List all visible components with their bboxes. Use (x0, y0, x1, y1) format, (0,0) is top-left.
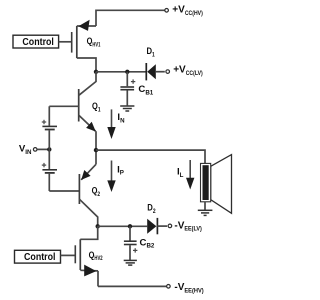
diode D2 (147, 218, 167, 234)
transistor Q2 (79, 150, 97, 226)
terminal +VCC(HV) (165, 9, 169, 13)
ground CB1 (120, 106, 134, 111)
diode D1 (146, 63, 165, 80)
terminal VIN (33, 148, 49, 152)
wire gate QHV2 (61, 254, 76, 256)
battery B1 (42, 106, 57, 149)
battery B2 (42, 149, 57, 191)
wire gate QHV1 (59, 41, 72, 43)
junction CB1 (125, 70, 129, 74)
arrow IP (107, 161, 115, 193)
ground speaker (198, 202, 213, 216)
wire node B to D2 (98, 225, 148, 227)
capacitor CB1 (120, 72, 135, 106)
transistor Q1 (49, 72, 96, 150)
control box bottom (15, 250, 61, 263)
transistor QHV2 (75, 226, 98, 286)
capacitor CB2 (124, 226, 137, 260)
arrow IL (186, 160, 194, 190)
control box top (13, 35, 59, 48)
wire bottom rail (98, 285, 166, 287)
junction VIN node (47, 147, 51, 151)
arrow IN (107, 109, 115, 139)
wire B2 to Q2 base (49, 190, 79, 192)
terminal -VEE(HV) (167, 285, 171, 289)
svg-text:Control: Control (24, 252, 56, 263)
terminal -VEE(LV) (168, 224, 172, 228)
transistor QHV1 (72, 20, 96, 72)
wire node A to D1 (96, 71, 146, 73)
wire output to speaker (96, 150, 205, 163)
speaker LOAD (201, 155, 232, 214)
junction CB2 (128, 224, 132, 228)
node B junction (96, 224, 100, 228)
node out junction (94, 148, 98, 152)
wire top rail (96, 10, 165, 26)
node A junction (94, 70, 98, 74)
terminal +VCC(LV) (166, 70, 170, 74)
svg-text:Control: Control (22, 37, 54, 48)
ground CB2 (124, 260, 137, 265)
